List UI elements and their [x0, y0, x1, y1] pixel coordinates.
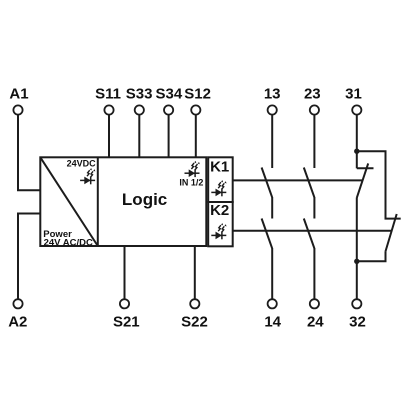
svg-text:S21: S21 [113, 313, 140, 330]
svg-text:24V AC/DC: 24V AC/DC [44, 237, 93, 248]
svg-text:IN 1/2: IN 1/2 [179, 178, 203, 188]
svg-text:32: 32 [349, 313, 366, 330]
svg-text:Logic: Logic [122, 190, 167, 209]
svg-text:13: 13 [264, 85, 281, 102]
svg-text:14: 14 [264, 313, 281, 330]
svg-text:A1: A1 [9, 85, 28, 102]
svg-text:24VDC: 24VDC [67, 159, 97, 169]
svg-text:S34: S34 [156, 85, 183, 102]
svg-text:A2: A2 [8, 313, 27, 330]
svg-text:31: 31 [345, 85, 362, 102]
svg-text:24: 24 [307, 313, 324, 330]
svg-text:K1: K1 [210, 159, 229, 176]
svg-text:K2: K2 [210, 202, 229, 219]
svg-text:S22: S22 [181, 313, 208, 330]
svg-text:S11: S11 [95, 85, 121, 102]
svg-text:S33: S33 [126, 85, 153, 102]
svg-text:S12: S12 [184, 85, 211, 102]
svg-text:23: 23 [304, 85, 321, 102]
